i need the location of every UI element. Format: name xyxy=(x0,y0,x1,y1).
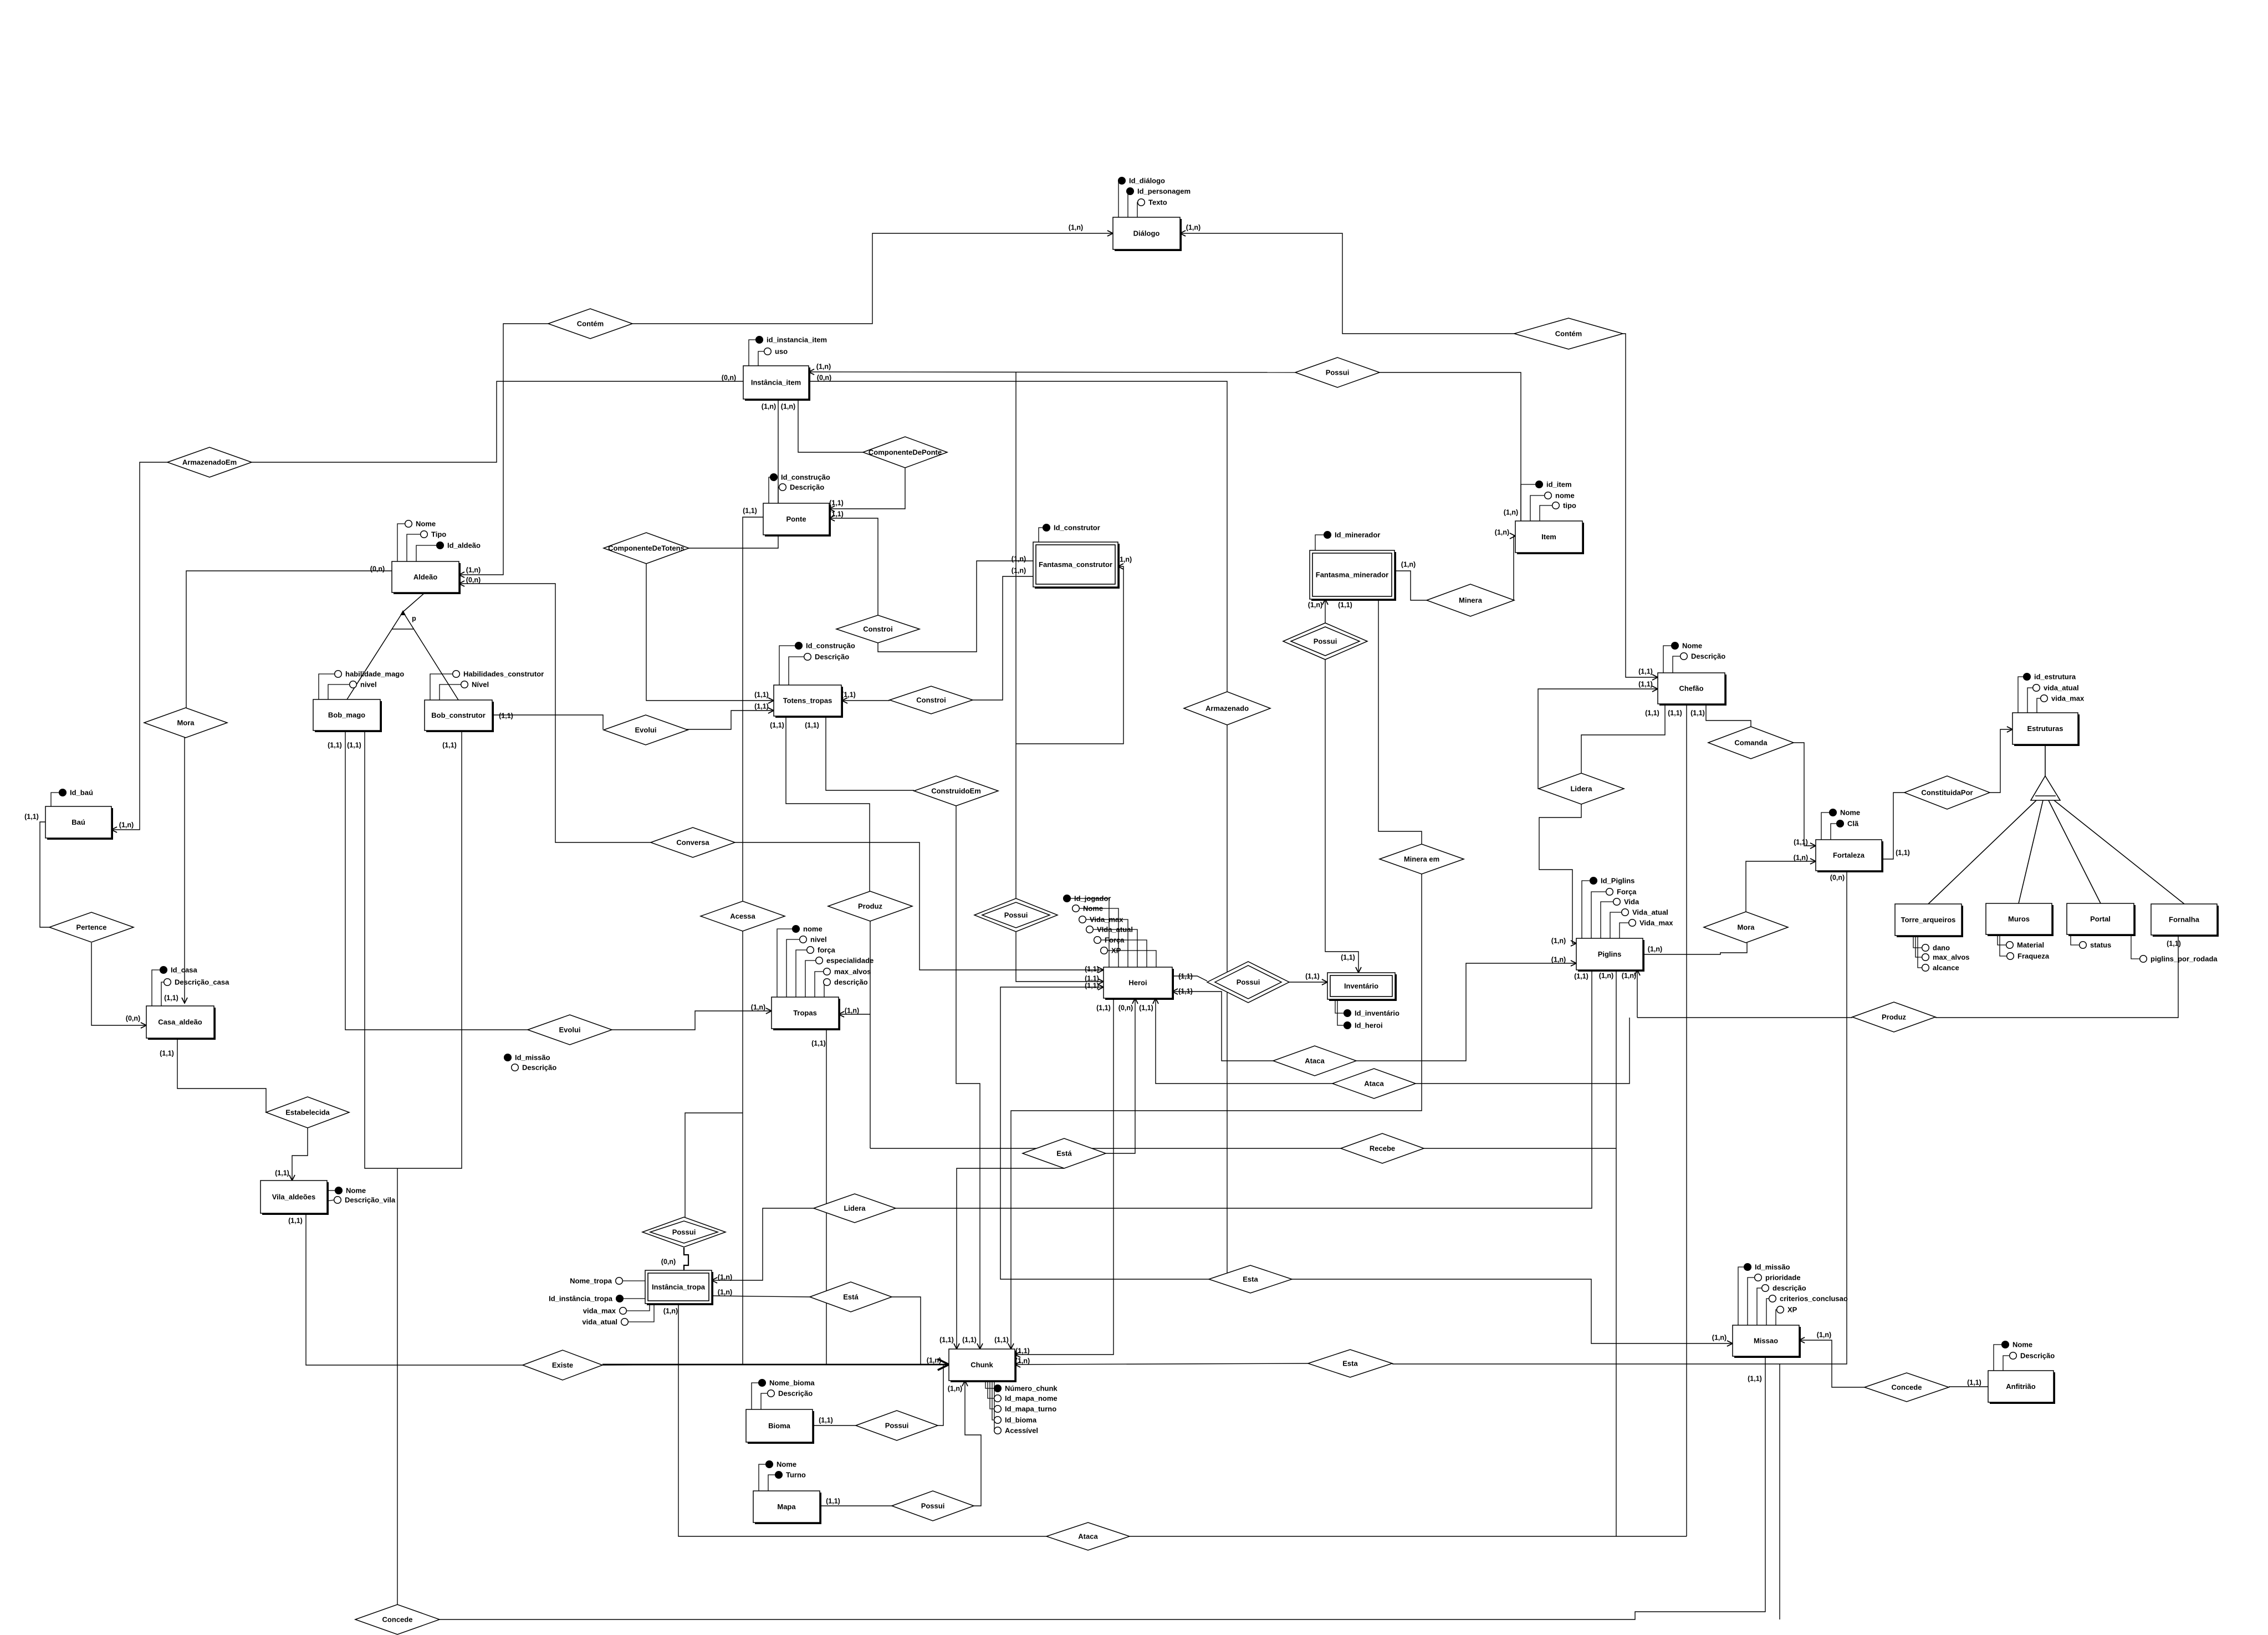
wire 165,1701 to 264,1850 xyxy=(91,943,146,1025)
entity Totens_tropas xyxy=(774,685,843,718)
wire 1609,2340 to 1661,2462 xyxy=(892,1297,921,1365)
svg-text:id_estrutura: id_estrutura xyxy=(2034,673,2076,681)
attribute Material xyxy=(2006,941,2044,949)
svg-text:id_item: id_item xyxy=(1546,481,1572,489)
wire attribute connector xyxy=(622,1280,645,1281)
svg-text:Id_instância_tropa: Id_instância_tropa xyxy=(549,1295,613,1303)
svg-text:(1,1): (1,1) xyxy=(164,994,178,1002)
wire attribute connector xyxy=(1094,940,1147,967)
attribute Acessível xyxy=(994,1427,1038,1435)
wire attribute connector xyxy=(1601,902,1613,938)
svg-text:Id_baú: Id_baú xyxy=(70,789,93,797)
wire attribute connector xyxy=(1821,813,1830,840)
svg-text:(1,1): (1,1) xyxy=(1668,709,1682,717)
attribute Vida_atual xyxy=(1622,908,1668,917)
svg-text:Força: Força xyxy=(1105,936,1125,944)
wire 717,2108 to 717,2895 xyxy=(397,1168,398,1605)
attribute vida_atual xyxy=(2033,684,2079,692)
svg-text:max_alvos: max_alvos xyxy=(1933,953,1970,962)
attribute XP xyxy=(1777,1306,1797,1314)
svg-text:criterios_conclusao: criterios_conclusao xyxy=(1780,1295,1848,1303)
svg-text:(1,n): (1,n) xyxy=(663,1307,678,1315)
wire attribute connector xyxy=(752,1383,759,1409)
wire 2447,1914 to 2844,1738 xyxy=(1356,963,1576,1061)
svg-text:(1,1): (1,1) xyxy=(939,1336,954,1344)
wire 1920,2108 to 1726,2434 xyxy=(957,1168,1064,1349)
wire 2360,2460 to 1831,2462 xyxy=(1015,1363,1308,1365)
wire attribute connector xyxy=(1086,929,1137,967)
svg-text:Vida_max: Vida_max xyxy=(1090,916,1123,924)
wire attribute connector xyxy=(2000,934,2007,956)
attribute Descrição xyxy=(768,1389,813,1398)
attribute Vida_max xyxy=(1629,919,1674,927)
relationship Evolui xyxy=(604,715,688,745)
entity Chunk xyxy=(949,1349,1016,1382)
wire 1584,1110 to 1496,935 xyxy=(829,518,878,615)
svg-text:descrição: descrição xyxy=(1772,1284,1806,1292)
relationship Conversa xyxy=(651,827,735,857)
svg-text:Clã: Clã xyxy=(1847,820,1859,828)
svg-text:(1,1): (1,1) xyxy=(1338,601,1352,609)
attribute Fraqueza xyxy=(2007,952,2050,960)
svg-text:Instância_tropa: Instância_tropa xyxy=(652,1283,706,1291)
wire 2928,602 to 2991,1222 xyxy=(1623,334,1658,677)
svg-text:(1,1): (1,1) xyxy=(826,1498,840,1505)
svg-text:max_alvos: max_alvos xyxy=(834,968,871,976)
relationship ConstituidaPor xyxy=(1904,776,1990,809)
wire 2954,1750 to 2954,1836 xyxy=(1637,970,1638,1018)
wire attribute connector xyxy=(786,939,800,997)
svg-text:Descrição_casa: Descrição_casa xyxy=(175,978,229,987)
svg-text:(1,1): (1,1) xyxy=(1178,973,1193,980)
wire 1237,1316 to 1396,1282 xyxy=(686,711,774,729)
svg-text:(1,n): (1,n) xyxy=(1817,1331,1831,1339)
svg-text:(1,1): (1,1) xyxy=(160,1050,174,1057)
svg-text:(1,1): (1,1) xyxy=(829,499,844,507)
wire attribute connector xyxy=(1118,181,1119,217)
node union triangle Estruturas xyxy=(1928,744,2184,904)
attribute Nome_tropa xyxy=(570,1277,622,1285)
svg-text:descrição: descrição xyxy=(834,978,868,987)
svg-text:(1,1): (1,1) xyxy=(805,722,819,729)
relationship Minera xyxy=(1427,584,1514,616)
wire attribute connector xyxy=(779,646,795,693)
wire 1340,1680 to 1340,2462 xyxy=(742,931,743,1365)
wire 623,1318 to 952,1858 xyxy=(345,730,528,1030)
wire attribute connector xyxy=(1915,936,1922,957)
relationship Constroi xyxy=(836,615,920,643)
svg-text:XP: XP xyxy=(1111,947,1121,955)
entity Anfitrião xyxy=(1988,1371,2055,1404)
svg-text:Id_Piglins: Id_Piglins xyxy=(1601,877,1634,885)
svg-text:Missao: Missao xyxy=(1754,1337,1778,1345)
wire attribute connector xyxy=(2018,677,2024,713)
wire attribute connector xyxy=(985,1381,994,1388)
svg-text:Id_mapa_turno: Id_mapa_turno xyxy=(1005,1405,1056,1413)
svg-text:Bob_mago: Bob_mago xyxy=(328,711,365,719)
svg-text:(1,n): (1,n) xyxy=(1012,567,1026,575)
wire 2048,1801 to 1995,2081 xyxy=(1106,998,1135,1153)
wire 1166,1017 to 1396,1264 xyxy=(646,564,774,701)
svg-text:Descrição: Descrição xyxy=(522,1064,556,1072)
svg-text:(1,n): (1,n) xyxy=(1015,1357,1030,1365)
wire 2731,1083 to 2734,967 xyxy=(1514,536,1515,600)
svg-text:(1,n): (1,n) xyxy=(1551,937,1566,945)
svg-text:(1,n): (1,n) xyxy=(948,1385,962,1393)
relationship Concede xyxy=(355,1605,440,1634)
svg-text:Id_heroi: Id_heroi xyxy=(1355,1021,1383,1030)
wire attribute connector xyxy=(761,1393,768,1409)
attribute Nome xyxy=(1072,905,1103,913)
attribute Id_minerador xyxy=(1324,531,1381,539)
wire 3332,1571 to 2512,2461 xyxy=(1392,871,1847,1364)
wire 2129,421 to 2733,602 xyxy=(1180,233,1515,334)
svg-text:Tropas: Tropas xyxy=(793,1009,817,1017)
svg-text:Nome: Nome xyxy=(346,1187,366,1195)
svg-text:Bioma: Bioma xyxy=(768,1422,791,1430)
svg-text:(1,n): (1,n) xyxy=(1186,224,1201,232)
wire attribute connector xyxy=(2027,688,2033,713)
relationship Acessa xyxy=(701,901,785,931)
wire attribute connector xyxy=(1663,646,1672,673)
wire 1757,2717 to 1741,2491 xyxy=(965,1381,981,1506)
wire attribute connector xyxy=(328,684,350,699)
wire 1605,1264 to 1519,1264 xyxy=(842,700,890,701)
attribute id_item xyxy=(1536,481,1572,489)
svg-text:Nome_tropa: Nome_tropa xyxy=(570,1277,612,1285)
attribute Id_instância_tropa xyxy=(549,1295,623,1303)
relationship Esta xyxy=(1308,1350,1392,1377)
wire 1404,720 to 1243,989 xyxy=(689,399,778,548)
wire 2916,1750 to 2916,2772 xyxy=(1616,970,1617,1536)
wire 3043,2772 to 3043,1270 xyxy=(1686,704,1687,1536)
attribute Nome_bioma xyxy=(759,1379,815,1387)
wire 1459,671 to 2337,672 xyxy=(809,372,1295,372)
wire 2569,2072 to 2916,2072 xyxy=(1424,1148,1616,1149)
attribute piglins_por_rodada xyxy=(2140,955,2218,963)
svg-text:Descrição: Descrição xyxy=(2020,1352,2055,1360)
svg-text:(1,1): (1,1) xyxy=(1015,1347,1030,1355)
wire 1833,672 to 1833,1621 xyxy=(1015,372,1016,898)
wire 2038,2772 to 3043,2772 xyxy=(1130,1536,1687,1537)
svg-text:Força: Força xyxy=(1617,888,1637,896)
wire 1833,1681 to 1991,1771 xyxy=(1016,932,1104,982)
wire attribute connector xyxy=(319,674,335,699)
attribute nivel xyxy=(800,936,827,944)
wire attribute connector xyxy=(152,970,160,1006)
svg-text:(1,1): (1,1) xyxy=(1178,988,1193,995)
attribute max_alvos xyxy=(1922,953,1970,962)
svg-text:(1,1): (1,1) xyxy=(743,507,757,515)
svg-text:Está: Está xyxy=(843,1293,859,1301)
wire attribute connector xyxy=(2071,934,2080,945)
svg-text:Inventário: Inventário xyxy=(1344,982,1378,990)
relationship Contém xyxy=(548,309,632,339)
wire 2853,1451 to 2844,1702 xyxy=(1539,804,1581,943)
svg-text:ComponenteDePonte: ComponenteDePonte xyxy=(869,448,942,457)
svg-text:Esta: Esta xyxy=(1243,1275,1258,1284)
wire 1570,1830 to 1513,1830 xyxy=(839,1014,870,1015)
svg-text:Produz: Produz xyxy=(858,902,883,911)
svg-text:(1,n): (1,n) xyxy=(1504,509,1518,517)
relationship Possui xyxy=(974,898,1058,932)
attribute max_alvos xyxy=(824,968,871,976)
attribute criterios_conclusao xyxy=(1769,1295,1848,1303)
svg-text:Chefão: Chefão xyxy=(1679,684,1703,693)
svg-text:Habilidades_construtor: Habilidades_construtor xyxy=(463,670,544,678)
svg-text:força: força xyxy=(818,946,836,954)
svg-text:(1,1): (1,1) xyxy=(819,1417,833,1424)
entity Item xyxy=(1515,521,1584,554)
svg-text:(0,n): (0,n) xyxy=(370,565,385,573)
attribute Id_aldeão xyxy=(437,541,481,550)
svg-text:(1,n): (1,n) xyxy=(751,1004,765,1011)
svg-text:ConstruidoEm: ConstruidoEm xyxy=(931,787,981,795)
svg-text:Id_construtor: Id_construtor xyxy=(1054,524,1100,532)
wire attribute connector xyxy=(758,351,764,366)
wire 3342,1836 to 2954,1836 xyxy=(1637,1017,1852,1018)
wire 555,2035 to 527,2130 xyxy=(292,1128,308,1181)
svg-text:(1,1): (1,1) xyxy=(1794,839,1808,846)
svg-text:XP: XP xyxy=(1787,1306,1797,1314)
svg-text:Fortaleza: Fortaleza xyxy=(1833,851,1865,860)
attribute Id_personagem xyxy=(1127,187,1191,196)
wire 2009,1801 to 1831,2444 xyxy=(1015,998,1113,1355)
attribute Vida xyxy=(1613,898,1639,906)
wire 1468,2180 to 1284,2310 xyxy=(712,1208,814,1280)
wire 2326,1772 to 2395,1772 xyxy=(1289,982,1327,983)
svg-text:(1,1): (1,1) xyxy=(754,691,769,699)
svg-text:Estruturas: Estruturas xyxy=(2027,724,2063,733)
attribute XP xyxy=(1101,947,1121,955)
wire 2419,2072 to 1570,2072 xyxy=(870,1148,1341,1149)
relationship Lidera xyxy=(814,1194,896,1223)
wire 2331,2308 to 3126,2424 xyxy=(1292,1279,1733,1343)
relationship Constroi xyxy=(890,686,973,714)
attribute habilidade_mago xyxy=(335,670,405,678)
svg-text:prioridade: prioridade xyxy=(1765,1274,1801,1282)
svg-text:Fraqueza: Fraqueza xyxy=(2017,952,2050,960)
wire attribute connector xyxy=(440,684,461,700)
svg-text:Possui: Possui xyxy=(672,1228,696,1237)
wire attribute connector xyxy=(1521,484,1536,521)
entity Bioma xyxy=(746,1409,814,1444)
attribute Nome xyxy=(405,520,436,528)
entity Muros xyxy=(1986,903,2054,936)
svg-text:(1,n): (1,n) xyxy=(1308,601,1322,609)
wire 2085,1801 to 2404,1955 xyxy=(1156,998,1332,1084)
wire attribute connector xyxy=(749,340,756,366)
attribute id_instancia_item xyxy=(756,336,827,344)
attribute VIda_atual xyxy=(1086,926,1133,934)
attribute Id_baú xyxy=(59,789,93,797)
svg-text:Possui: Possui xyxy=(1314,637,1337,646)
wire attribute connector xyxy=(1610,912,1622,938)
svg-text:(1,n): (1,n) xyxy=(119,821,134,829)
svg-text:Id_missão: Id_missão xyxy=(1755,1263,1790,1271)
wire attribute connector xyxy=(327,1190,335,1191)
wire 2565,1577 to 1824,2434 xyxy=(1011,874,1422,1349)
svg-text:tipo: tipo xyxy=(1563,502,1576,510)
wire attribute connector xyxy=(1079,919,1128,967)
svg-text:(1,n): (1,n) xyxy=(1401,561,1416,569)
svg-text:Vila_aldeões: Vila_aldeões xyxy=(272,1193,316,1201)
svg-text:(1,1): (1,1) xyxy=(347,742,361,749)
svg-text:Diálogo: Diálogo xyxy=(1133,229,1160,238)
svg-text:(1,n): (1,n) xyxy=(1117,556,1132,564)
svg-text:Piglins: Piglins xyxy=(1598,950,1622,958)
relationship Esta xyxy=(1209,1265,1292,1293)
wire attribute connector xyxy=(768,1475,775,1491)
entity Bob_mago xyxy=(313,699,382,732)
entity Tropas xyxy=(772,997,840,1030)
svg-text:Vida: Vida xyxy=(1624,898,1639,906)
entity Diálogo xyxy=(1113,217,1182,251)
svg-text:Fantasma_construtor: Fantasma_construtor xyxy=(1039,560,1112,569)
entity Fortaleza xyxy=(1816,840,1883,872)
svg-text:Armazenado: Armazenado xyxy=(1205,704,1249,713)
wire 533,2189 to 943,2463 xyxy=(295,1213,523,1365)
relationship Comanda xyxy=(1708,727,1794,759)
attribute Id_Piglins xyxy=(1590,877,1635,885)
wire attribute connector xyxy=(623,1298,645,1299)
relationship Armazenado xyxy=(1184,692,1270,725)
entity Portal xyxy=(2067,903,2136,936)
wire 3078,1270 to 3159,1311 xyxy=(1706,704,1751,727)
svg-text:Acessível: Acessível xyxy=(1005,1427,1038,1435)
svg-text:Totens_tropas: Totens_tropas xyxy=(783,697,832,705)
svg-text:Acessa: Acessa xyxy=(730,912,755,921)
attribute Número_chunk xyxy=(994,1384,1058,1393)
wire attribute connector xyxy=(1039,528,1043,542)
wire attribute connector xyxy=(994,1381,995,1430)
wire 3211,2922 to 3211,2461 xyxy=(1779,1364,1780,1619)
svg-text:(1,1): (1,1) xyxy=(962,1336,977,1344)
svg-text:Id_bioma: Id_bioma xyxy=(1005,1416,1037,1424)
wire 1377,933 to 1340,1626 xyxy=(743,517,763,901)
svg-text:(1,n): (1,n) xyxy=(845,1007,859,1015)
svg-text:(1,n): (1,n) xyxy=(781,403,795,411)
wire 1087,2463 to 1340,2462 xyxy=(602,1365,743,1365)
relationship ComponenteDeTotens xyxy=(604,533,689,564)
svg-text:ComponenteDeTotens: ComponenteDeTotens xyxy=(608,544,685,553)
entity Instância_item xyxy=(743,366,810,401)
svg-text:Mapa: Mapa xyxy=(777,1503,796,1511)
svg-text:Mora: Mora xyxy=(1737,923,1755,932)
svg-text:vida_max: vida_max xyxy=(2051,694,2085,703)
svg-text:Concede: Concede xyxy=(382,1616,413,1624)
svg-text:(1,1): (1,1) xyxy=(829,510,844,518)
wire attribute connector xyxy=(430,674,453,700)
svg-text:(1,n): (1,n) xyxy=(1551,956,1566,964)
svg-text:Nome: Nome xyxy=(1083,905,1103,913)
relationship ComponenteDePonte xyxy=(863,437,947,468)
svg-text:Possui: Possui xyxy=(1326,369,1350,377)
svg-text:(1,1): (1,1) xyxy=(499,712,513,720)
entity Fantasma_construtor xyxy=(1033,542,1120,589)
svg-text:(1,1): (1,1) xyxy=(1139,1004,1153,1012)
wire attribute connector xyxy=(777,929,793,997)
relationship Existe xyxy=(523,1350,602,1380)
svg-text:Nome: Nome xyxy=(777,1460,796,1469)
svg-text:uso: uso xyxy=(775,348,788,356)
svg-text:Lidera: Lidera xyxy=(844,1204,866,1213)
wire 2391,1124 to 2391,1081 xyxy=(1325,599,1326,623)
svg-text:(1,n): (1,n) xyxy=(718,1289,732,1296)
relationship Ataca xyxy=(1273,1046,1356,1076)
relationship Concede xyxy=(1865,1373,1949,1402)
svg-text:Id_missão: Id_missão xyxy=(515,1054,550,1062)
svg-text:(1,1): (1,1) xyxy=(770,722,784,729)
wire attribute connector xyxy=(2037,698,2041,713)
svg-text:Nome: Nome xyxy=(416,520,436,528)
svg-text:nivel: nivel xyxy=(810,936,827,944)
svg-text:(1,n): (1,n) xyxy=(1712,1334,1726,1342)
svg-text:Descrição: Descrição xyxy=(790,483,824,492)
wire attribute connector xyxy=(407,534,421,561)
svg-text:Vida_atual: Vida_atual xyxy=(1632,908,1668,917)
wire attribute connector xyxy=(1831,824,1837,840)
svg-text:Bob_construtor: Bob_construtor xyxy=(431,711,486,719)
attribute Id_missão xyxy=(504,1054,550,1062)
svg-text:(1,n): (1,n) xyxy=(816,363,831,371)
wire attribute connector xyxy=(1776,1310,1777,1325)
wire attribute connector xyxy=(1072,908,1118,967)
svg-text:Tipo: Tipo xyxy=(431,530,446,539)
relationship Mora xyxy=(144,708,227,738)
attribute Nome xyxy=(1672,642,1702,650)
wire attribute connector xyxy=(327,1200,334,1201)
svg-text:(1,1): (1,1) xyxy=(841,691,856,699)
svg-text:Anfitrião: Anfitrião xyxy=(2006,1382,2036,1391)
wire 658,1318 to 833,1318 xyxy=(365,730,462,1168)
wire 2516,1030 to 2574,1083 xyxy=(1394,571,1427,600)
wire 1087,2462 to 1712,2462 xyxy=(602,1364,949,1366)
relationship Evolui xyxy=(528,1015,612,1045)
svg-text:(1,1): (1,1) xyxy=(275,1169,289,1177)
wire 2297,1914 to 2115,1789 xyxy=(1172,992,1273,1061)
svg-text:(0,n): (0,n) xyxy=(661,1258,676,1266)
wire attribute connector xyxy=(51,793,59,806)
entity Baú xyxy=(45,806,113,840)
relationship Está xyxy=(1023,1138,1106,1168)
attribute status xyxy=(2080,941,2112,949)
wire 82,1483 to 89,1673 xyxy=(40,822,49,927)
entity Aldeão xyxy=(392,561,461,594)
svg-text:(1,n): (1,n) xyxy=(1599,972,1613,980)
attribute Força xyxy=(1606,888,1637,896)
svg-text:Nome: Nome xyxy=(2012,1341,2032,1349)
svg-text:Muros: Muros xyxy=(2008,915,2030,923)
svg-text:(1,1): (1,1) xyxy=(1341,954,1355,962)
svg-text:(1,n): (1,n) xyxy=(1012,555,1026,563)
wire attribute connector xyxy=(769,477,770,503)
wire 2391,1190 to 2451,1755 xyxy=(1325,660,1358,973)
wire attribute connector xyxy=(1064,898,1109,967)
svg-text:dano: dano xyxy=(1933,944,1950,952)
wire 1440,720 to 1557,816 xyxy=(798,399,863,452)
wire attribute connector xyxy=(824,982,824,997)
svg-text:Instância_item: Instância_item xyxy=(751,379,801,387)
attribute id_estrutura xyxy=(2024,673,2076,681)
wire attribute connector xyxy=(1748,1278,1755,1325)
entity Missao xyxy=(1733,1325,1801,1358)
wire 1633,844 to 1496,918 xyxy=(829,468,905,509)
wire 2489,672 to 2744,940 xyxy=(1380,372,1521,521)
attribute Nome xyxy=(766,1460,796,1469)
svg-text:Descrição: Descrição xyxy=(1691,652,1725,661)
wire attribute connector xyxy=(1137,202,1138,217)
